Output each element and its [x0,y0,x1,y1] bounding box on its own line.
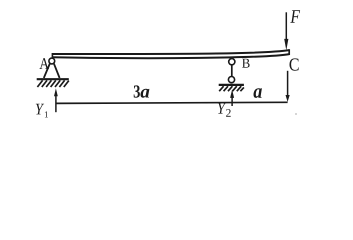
label C [290,58,299,70]
Y2 arrowhead [230,90,234,98]
label a of 3a [141,89,150,98]
Y1 arrowhead [54,88,58,96]
label A [39,58,49,69]
label B [242,59,250,68]
hatching at A [37,80,68,87]
ground line at A [37,78,69,80]
beam A-C top line [52,50,289,54]
label F [290,10,300,23]
faint scan speck [295,113,297,115]
top pin circle of link support B [229,59,235,65]
hatching at B [219,86,244,91]
beam A-C bottom line [52,54,289,58]
label 3 of 3a [134,85,140,97]
reaction Y1 arrow shaft [55,96,57,112]
beam left end cap [51,53,53,58]
reaction Y2 arrow shaft [231,97,233,106]
ground line at B [219,84,244,86]
force F line [285,12,287,39]
label Y of Y2 [218,103,226,114]
subscript 2 of Y2 [226,109,231,117]
force F arrowhead [284,39,288,50]
arrowhead below C [286,95,290,102]
dimension baseline [56,102,288,103]
link rod at B [231,65,233,77]
pin circle at A [49,58,55,64]
label Y of Y1 [36,104,44,115]
force line below C [287,71,289,96]
subscript 1 of Y1 [45,111,48,117]
bottom pin circle of link support B [228,77,234,83]
label a (B to C) [254,88,262,98]
beam right end cap [288,49,290,55]
triangle of pin support A [44,64,60,78]
